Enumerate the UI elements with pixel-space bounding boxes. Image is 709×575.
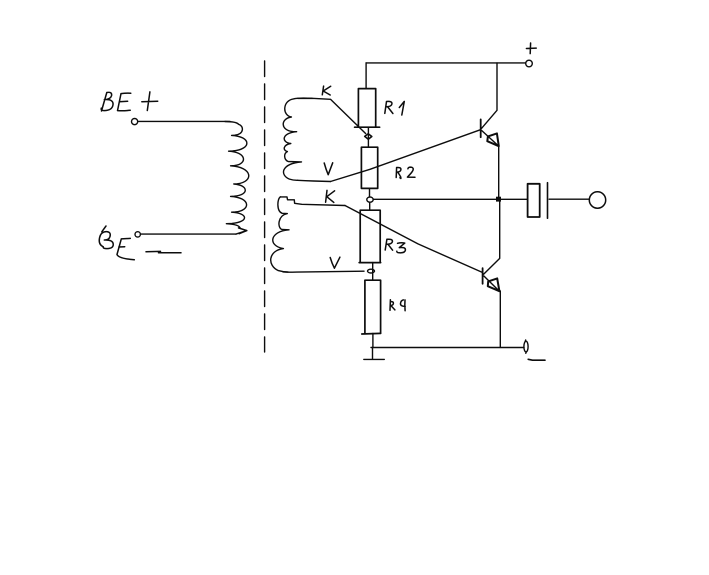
transistor Q1 collector [482,63,498,128]
wire junction to R3 top [369,202,371,210]
wire K lower lead (staircase from winding top) [280,197,345,206]
wire top supply rail [366,62,525,64]
text BE - (input label) [99,226,181,260]
node dot (junction of emitter/collector/crystal) [496,197,501,202]
wire K upper to R1/R2 junction [298,98,366,133]
wire R1 top lead [365,63,367,89]
transistor Q2 collector wire from node [484,202,500,275]
label V (lower winding) [330,257,340,268]
label R3 [385,239,392,250]
secondary winding lower (K/V) [271,197,289,272]
node junction (open circle) on main wire [367,197,373,202]
resistor R1 [355,89,380,128]
terminal - (bottom right) [524,341,528,352]
transistor Q2 emitter [484,276,499,291]
transistor Q1 base bar [480,119,482,137]
arrowhead diamond at R1/R2 junction [365,134,372,140]
wire V lower lead to R3/R4 junction [283,270,364,273]
secondary winding upper (K/V) [283,98,312,180]
crystal earpiece element [528,184,540,217]
wire Q1 emitter to node [498,146,500,197]
wire R1 bottom to R2 top through diamond [367,127,369,147]
transistor Q2 base bar [482,268,484,284]
label R2 [396,167,415,178]
wire K lower to Q2 base [345,206,482,273]
junction R3/R4 (open ellipse) [368,269,375,273]
wire V upper to Q1 base [331,130,481,182]
output terminal (circle) [589,192,605,208]
wire main horizontal (to crystal) [373,198,527,200]
wire R4 bottom to ground rail [372,333,374,347]
arrowhead at primary winding bottom [239,228,247,234]
wire primary bottom lead [141,233,237,235]
wire R3 bottom to R4 top [372,263,374,281]
transistor Q1 emitter [482,131,499,147]
text - (minus label) [528,358,545,361]
wire V upper lead from winding [298,180,331,181]
label R4 [390,300,395,311]
label R1 [385,101,393,113]
wire R2 bottom to junction [369,188,371,197]
wire crystal to output terminal [549,198,589,200]
wire bottom rail [371,347,524,349]
ground [364,348,385,360]
label K (upper winding) [322,86,330,95]
resistor R3 [359,210,380,262]
terminal BE+ [132,119,138,125]
transformer primary winding [225,122,249,229]
label V (upper winding) [324,163,333,175]
resistor R2 [361,147,377,188]
text BE + (input label) [101,92,158,111]
terminal + (supply) [526,60,533,67]
wire Q2 emitter to bottom rail [499,291,501,347]
text + (supply label) [526,43,536,54]
terminal BE- [135,232,140,237]
resistor R4 [362,280,381,334]
transformer core (dashed line) [264,61,266,352]
label K (lower winding) [326,190,335,202]
wire primary top lead [138,120,230,122]
